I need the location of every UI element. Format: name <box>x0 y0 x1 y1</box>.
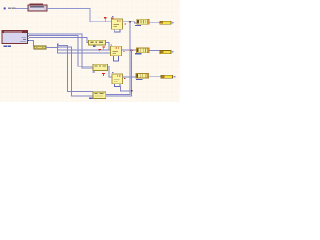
wire into U1 input <box>90 20 112 23</box>
label below RL3 <box>136 79 142 80</box>
no-connect mark J1 <box>172 22 174 24</box>
wire U3 bottom loop <box>114 84 121 87</box>
wire U1 bottom loop <box>114 29 121 32</box>
wire w3 from DS1 <box>29 36 88 39</box>
label below K2 <box>93 46 96 47</box>
wire node to X1 <box>16 7 29 10</box>
net tick at junction <box>57 44 59 45</box>
node N1 input terminal <box>3 7 5 9</box>
wire K2 out <box>106 42 110 50</box>
junction JC bus B top <box>131 49 133 51</box>
label left of P4 <box>89 98 92 99</box>
no-connect mark J2 <box>172 51 174 53</box>
wire vertical x=90 <box>89 8 92 22</box>
net tick above U1 <box>112 16 113 17</box>
net tick above U2 <box>111 45 113 46</box>
junction JA <box>57 47 59 49</box>
power flag VCC2b <box>102 46 105 49</box>
wire K3 out <box>108 66 113 78</box>
resistor R1 <box>34 46 46 49</box>
wire w2 vertical <box>76 35 79 66</box>
relay RL3 <box>136 73 149 78</box>
wire RL1 to J1 <box>149 21 160 24</box>
driver U3 <box>112 74 123 84</box>
wire bus B vertical <box>130 50 133 97</box>
part K2 <box>89 40 106 45</box>
wire w2 into K3 pin1 <box>77 65 93 68</box>
wire RL2 to J2 <box>149 49 160 52</box>
wire U3 loop to bus B <box>120 86 132 92</box>
wire bus B to P4 <box>106 95 133 98</box>
label below RL1 <box>135 25 141 26</box>
wire w1 from DS1 <box>29 33 82 36</box>
wire to U2 input a <box>57 48 110 51</box>
wire X1 to corner <box>47 7 90 10</box>
wire U3 output <box>123 76 137 79</box>
wire to P4 pin1 branch <box>57 45 93 92</box>
wire DS1 pin5 to R1 drop <box>29 40 34 46</box>
wire bus A vertical <box>129 21 132 95</box>
LCD module DS1 <box>2 31 27 44</box>
wire junction riser <box>56 45 59 53</box>
power flag VCC1a <box>104 17 107 21</box>
junction JB bus A top <box>129 21 131 23</box>
wire U2 output <box>122 49 137 52</box>
driver U2 <box>111 46 122 56</box>
power flag VCC3 <box>102 73 105 76</box>
connector J3 <box>161 75 173 78</box>
power flag VCC2a <box>98 49 101 52</box>
pin number U3 out <box>124 78 125 79</box>
label below RL2 <box>135 53 142 54</box>
label below K3 <box>92 71 95 72</box>
net label CRUIN <box>8 8 15 9</box>
part P4 <box>93 92 106 99</box>
net tick above U3 <box>112 72 113 73</box>
wire U1 output <box>123 21 137 23</box>
wire bus A to P4 <box>106 93 131 96</box>
wire to U2 input b <box>57 51 110 54</box>
wire w2 from DS1 <box>29 34 78 37</box>
wire to P4 pin2 branch <box>57 47 93 97</box>
wire w1 vertical <box>80 34 83 69</box>
connector J1 <box>160 21 171 24</box>
wire U2 bottom loop <box>113 56 119 62</box>
label above X1 <box>29 3 43 4</box>
driver U1 <box>112 19 123 29</box>
relay RL1 <box>137 19 150 24</box>
part K3 <box>93 64 108 70</box>
wire w1 into K3 pin2 <box>81 67 93 70</box>
pins DS1 right edge <box>28 33 30 41</box>
wire RL3 to J3 <box>149 75 161 78</box>
no-connect mark J3 <box>174 76 176 78</box>
connector J2 <box>160 50 171 53</box>
label below DS1 <box>4 45 11 47</box>
power flag VCC1b <box>111 18 114 20</box>
wire w3 vertical into K2 <box>87 37 89 43</box>
relay RL2 <box>137 48 150 53</box>
pin number U1 out <box>125 23 126 24</box>
oscillator module X1 <box>28 5 47 11</box>
pin number U2 out <box>123 51 124 52</box>
wire R1 to junction <box>46 46 58 49</box>
